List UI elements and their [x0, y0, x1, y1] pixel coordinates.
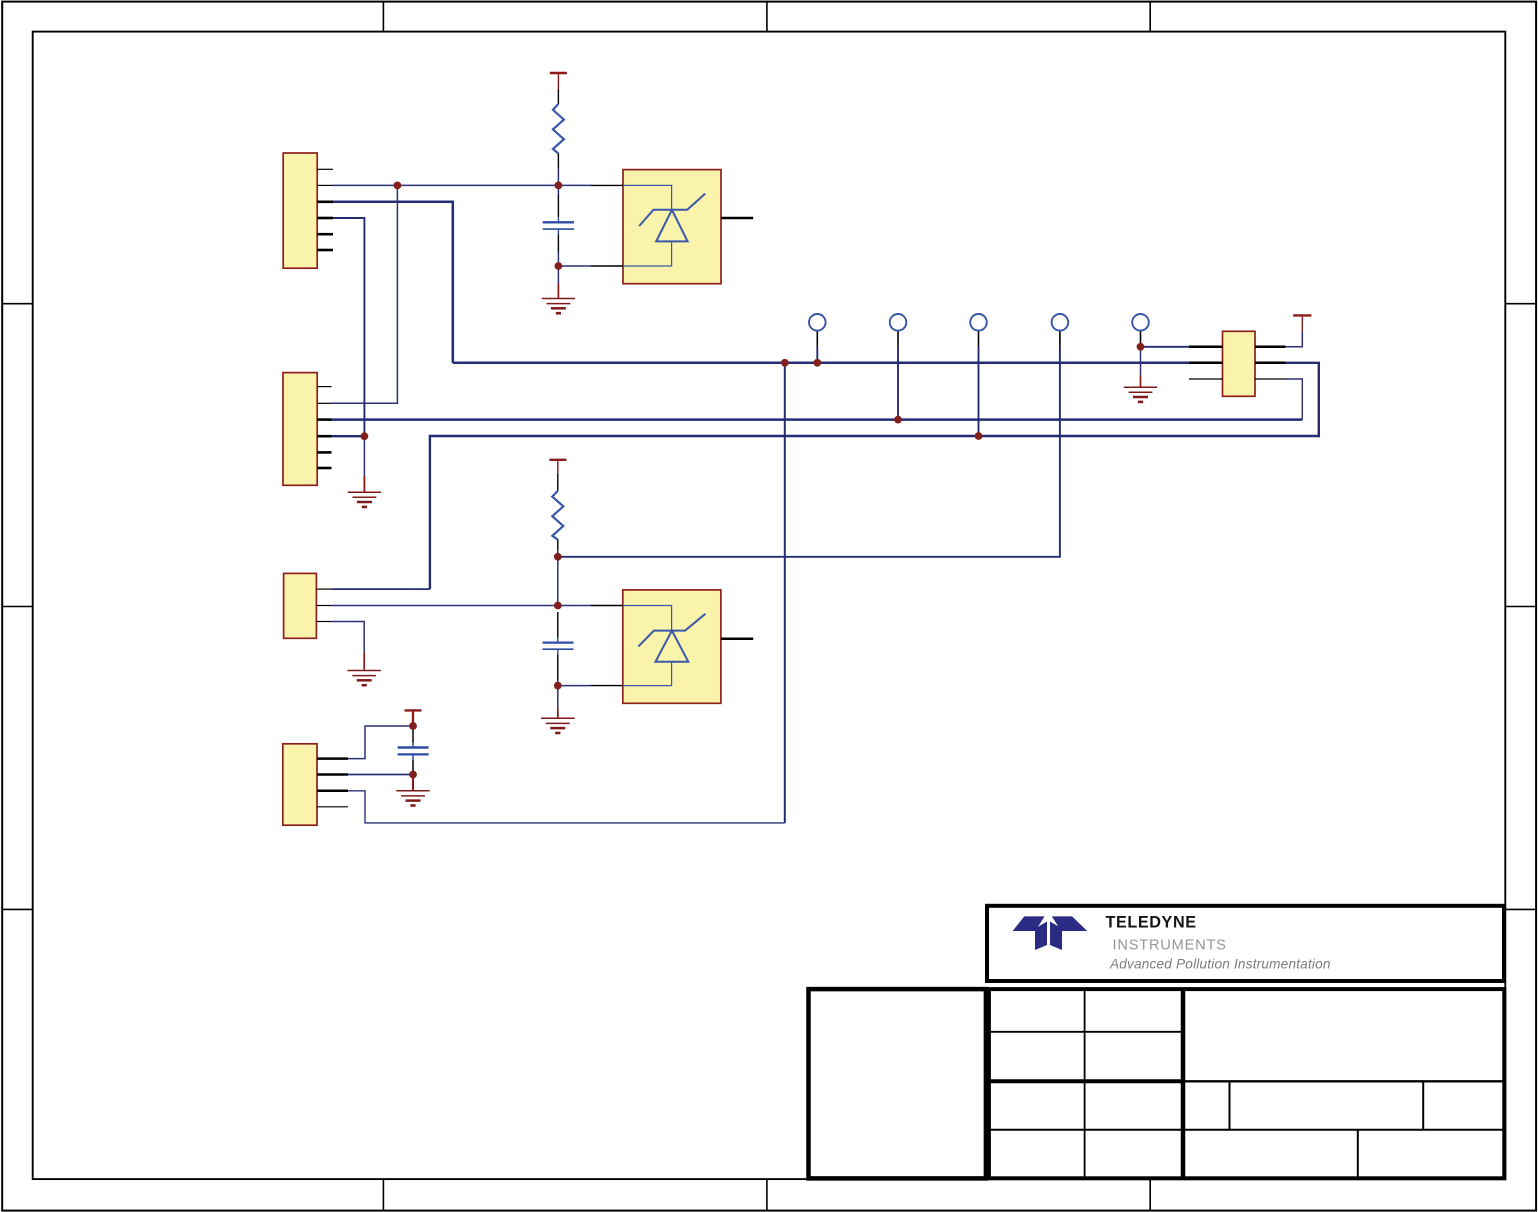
capacitor C1 top lead: [557, 185, 559, 195]
ground GND1: [542, 299, 575, 314]
J1 pin 5 stub: [317, 233, 333, 236]
test point TP4 stem: [1059, 331, 1061, 347]
wire riser x785: [784, 363, 786, 823]
junction node F: [361, 432, 369, 440]
junction node I: [1137, 343, 1145, 351]
J5 pin 3 left stub: [1189, 378, 1223, 380]
junction node C: [554, 553, 562, 561]
power symbol VCC1: [550, 73, 567, 89]
wire J1 pin2 to node A: [333, 184, 558, 186]
J4 pin 3 stub: [317, 790, 348, 793]
zone tick top 1: [382, 2, 384, 32]
suppressor D1 zener bar: [639, 194, 705, 226]
wire node E to ground: [557, 686, 559, 709]
zone tick right 1: [1505, 303, 1536, 305]
connector J3: [284, 573, 317, 638]
test point TP2 stem: [897, 331, 899, 347]
junction node D: [554, 602, 562, 610]
J2 pin 6 stub: [317, 467, 331, 470]
zone tick left 3: [2, 908, 33, 910]
J5 pin 3 right stub: [1255, 378, 1286, 380]
test point TP2: [890, 314, 907, 331]
capacitor C2 top lead: [557, 612, 559, 638]
J3 pin 3 stub: [316, 621, 331, 623]
suppressor D2 zener bar: [638, 614, 705, 647]
zone tick bottom 1: [382, 1179, 384, 1211]
zone tick left 2: [2, 606, 33, 608]
resistor R1 bottom lead: [557, 154, 559, 169]
J5 pin 2 left stub: [1189, 362, 1223, 365]
test point TP3: [970, 314, 987, 331]
capacitor C3 bottom lead: [412, 754, 414, 759]
ground GND2: [541, 718, 574, 733]
wire node A to D1: [558, 184, 591, 186]
J3 pin 2 stub: [316, 605, 331, 607]
wire node E to D2: [558, 685, 591, 687]
J5 pin 2 right stub: [1255, 362, 1286, 365]
test point TP4: [1052, 314, 1069, 331]
resistor R1: [553, 104, 564, 154]
wire bus3: [430, 363, 1319, 589]
test point TP1 stem: [816, 331, 818, 347]
zone tick right 2: [1505, 606, 1536, 608]
title block middle row line 1: [989, 1031, 1183, 1033]
Teledyne logo emblem: [1013, 916, 1088, 950]
capacitor C2 bottom lead: [557, 649, 559, 654]
suppressor D2 diode triangle: [656, 631, 689, 662]
title block middle column divider: [1084, 989, 1086, 1178]
ground GND3: [396, 791, 429, 806]
wire J2 pin4 to node F: [332, 435, 365, 437]
resistor R2 bottom lead: [557, 540, 559, 551]
zone tick bottom 2: [766, 1179, 768, 1211]
title block right cell divider a: [1229, 1081, 1231, 1129]
J4 pin 1 stub: [317, 757, 348, 760]
junction node A1: [394, 182, 402, 190]
junction bus1 x785: [781, 359, 789, 367]
wire node B to ground: [557, 266, 559, 284]
title block main table: [989, 989, 1504, 1178]
power symbol VCC4: [405, 710, 422, 726]
resistor R2: [552, 491, 563, 540]
wire J5 pin1 to VCC3: [1286, 331, 1303, 347]
junction node A2: [555, 182, 563, 190]
J2 pin 3 stub: [317, 418, 331, 421]
title block row line 3: [989, 1129, 1504, 1131]
wire J3 pin2 to node D: [331, 605, 557, 607]
J1 pin 6 stub: [317, 249, 333, 252]
J2 pin 5 stub: [317, 451, 331, 454]
wire node C to node D: [557, 557, 559, 606]
junction bus1 TP1: [813, 359, 821, 367]
svg-text:INSTRUMENTS: INSTRUMENTS: [1113, 938, 1227, 954]
wire node F to ground: [363, 436, 365, 476]
svg-text:TELEDYNE: TELEDYNE: [1106, 914, 1197, 932]
capacitor C1 bottom lead: [557, 229, 559, 234]
J1 pin 4 stub: [317, 217, 333, 220]
wire node B to D1: [558, 265, 591, 267]
title block bottom cell divider: [1357, 1130, 1359, 1179]
wire bus1: [453, 362, 1189, 365]
wire bus2: [332, 418, 1303, 421]
wire node I to ground: [1140, 347, 1142, 375]
zone tick top 3: [1149, 2, 1151, 32]
wire J2 pin2 to node A column: [332, 185, 398, 403]
wire node G to ground: [412, 775, 414, 791]
connector J2: [283, 373, 317, 486]
junction bus2 TP2: [894, 416, 902, 424]
power symbol VCC3: [1293, 315, 1311, 331]
suppressor D2 internal top lead: [623, 606, 672, 631]
junction node G: [409, 722, 417, 730]
test point TP5: [1132, 314, 1149, 331]
ground GND6: [1124, 387, 1157, 402]
wire R1 to node A: [557, 169, 559, 186]
junction node E: [554, 682, 562, 690]
ground GND5: [348, 671, 381, 686]
power symbol VCC2: [549, 460, 566, 474]
suppressor D2 box: [623, 590, 721, 703]
suppressor D1 diode triangle: [656, 210, 687, 242]
junction node B: [555, 262, 563, 270]
junction node H: [409, 771, 417, 779]
resistor R1 top lead: [557, 89, 559, 104]
suppressor D2 internal bottom lead: [623, 662, 672, 686]
wire J1 pin3 bus: [333, 202, 453, 363]
connector J5: [1223, 331, 1256, 396]
J1 pin 3 stub: [317, 201, 333, 204]
suppressor D1 internal bottom lead: [623, 241, 672, 266]
connector J4: [283, 744, 317, 825]
wire node I to J5 pin1: [1141, 346, 1190, 348]
connector J1: [283, 153, 317, 268]
wire J3 pin1 to bus3: [331, 588, 430, 590]
resistor R2 top lead: [557, 474, 559, 491]
capacitor C1: [543, 222, 574, 229]
zone tick left 1: [2, 303, 33, 305]
wire J1 pin4 down: [333, 218, 364, 436]
J5 pin 1 right stub: [1255, 346, 1286, 349]
title block left box: [809, 989, 986, 1178]
wire J3 pin3 to ground: [331, 622, 364, 653]
J2 pin 2 stub: [317, 402, 331, 404]
zone tick top 2: [766, 2, 768, 32]
test point TP1: [809, 314, 826, 331]
title block right row line 2: [1183, 1080, 1504, 1082]
wire node C horizontal: [558, 347, 1060, 557]
svg-text:Advanced Pollution Instrumenta: Advanced Pollution Instrumentation: [1109, 957, 1331, 972]
test point TP5 stem: [1140, 331, 1142, 347]
wire J4 pin3 loop to bus1: [348, 791, 785, 823]
suppressor D1 box: [623, 170, 721, 284]
J2 pin 4 stub: [317, 435, 331, 438]
suppressor D1 right pin: [721, 217, 753, 220]
capacitor C2: [543, 643, 574, 650]
zone tick right 3: [1505, 908, 1536, 910]
test point TP3 stem: [978, 331, 980, 347]
J2 pin 1 stub: [317, 386, 331, 388]
wire node D to D2: [558, 605, 591, 607]
J4 pin 2 stub: [317, 773, 348, 776]
title block logo box: [987, 906, 1504, 981]
wire J4 pin2 to node H: [348, 774, 413, 776]
title block right cell divider b: [1422, 1081, 1424, 1129]
title block middle row line 2 thick: [989, 1079, 1183, 1083]
J5 pin 1 left stub: [1189, 346, 1223, 349]
capacitor C3: [398, 748, 429, 755]
J3 pin 1 stub: [316, 588, 331, 590]
J1 pin 2 stub: [317, 184, 333, 186]
title block divider thick vertical: [1181, 989, 1186, 1178]
suppressor D1 internal top lead: [623, 185, 672, 209]
wire bus2 riser to J5 pin3: [1286, 379, 1303, 420]
J1 pin 1 stub: [317, 168, 333, 170]
ground GND4: [348, 492, 381, 507]
junction bus3 TP3: [975, 432, 983, 440]
J4 pin 4 stub: [317, 806, 348, 808]
suppressor D2 right pin: [721, 637, 753, 640]
zone tick bottom 3: [1149, 1179, 1151, 1211]
wire J4 pin1 to node G: [348, 726, 413, 759]
capacitor C3 top lead: [412, 726, 414, 743]
